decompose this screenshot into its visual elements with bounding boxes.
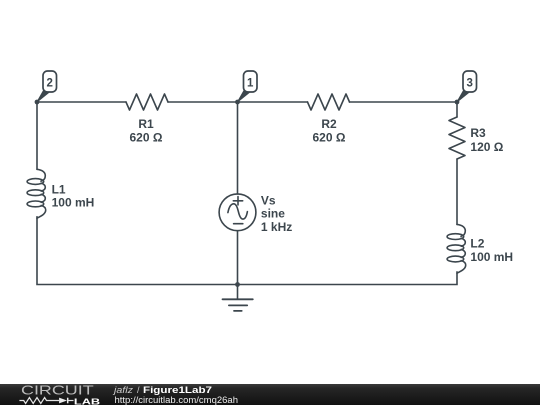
- wire left vertical upper: [36, 102, 38, 169]
- resistor R3: [449, 117, 504, 159]
- wire middle vertical lower: Vs to ground junction: [237, 231, 239, 299]
- svg-text:1: 1: [247, 78, 254, 90]
- wire top-middle: R1 to node1: [168, 101, 308, 103]
- svg-text:100 mH: 100 mH: [470, 250, 513, 264]
- svg-text:2: 2: [46, 78, 52, 90]
- svg-text:LAB: LAB: [74, 397, 100, 405]
- svg-text:620 Ω: 620 Ω: [313, 130, 346, 144]
- svg-text:Vs: Vs: [261, 193, 276, 207]
- svg-text:620 Ω: 620 Ω: [130, 130, 163, 144]
- svg-text:R2: R2: [321, 117, 337, 131]
- CircuitLab logo: [0, 384, 260, 405]
- wire top-right: R2 to node3: [350, 101, 458, 103]
- wire bottom: [37, 216, 457, 284]
- svg-text:sine: sine: [261, 207, 285, 221]
- footer bar: [0, 384, 540, 405]
- svg-text:100 mH: 100 mH: [52, 195, 95, 209]
- wire right vertical middle: R3 to L2: [456, 159, 458, 224]
- svg-text:L1: L1: [52, 182, 66, 196]
- svg-text:R1: R1: [138, 117, 154, 131]
- ground junction dot: [235, 282, 240, 287]
- node 3 flag: [457, 71, 477, 102]
- resistor R1: [126, 94, 168, 144]
- wire right vertical upper: node3 to R3: [456, 102, 458, 117]
- svg-text:L2: L2: [470, 236, 484, 250]
- voltage source Vs: [219, 193, 292, 234]
- inductor L2: [447, 224, 513, 273]
- wire top-left: node2 to R1: [37, 101, 126, 103]
- svg-text:120 Ω: 120 Ω: [470, 140, 503, 154]
- inductor L1: [27, 169, 94, 218]
- node 2 flag: [37, 71, 57, 102]
- svg-text:R3: R3: [470, 126, 486, 140]
- node 1 junction dot: [235, 100, 240, 105]
- node 2 junction dot: [35, 100, 40, 105]
- svg-text:http://circuitlab.com/cmq26ah: http://circuitlab.com/cmq26ah: [115, 395, 239, 405]
- svg-text:3: 3: [466, 78, 472, 90]
- node 3 junction dot: [455, 100, 460, 105]
- svg-text:/: /: [137, 385, 140, 395]
- wire middle vertical upper: node1 to Vs: [237, 102, 239, 194]
- resistor R2: [308, 94, 350, 144]
- svg-text:1 kHz: 1 kHz: [261, 220, 292, 234]
- svg-text:jaflz: jaflz: [113, 385, 134, 395]
- ground: [223, 299, 253, 311]
- svg-text:Figure1Lab7: Figure1Lab7: [143, 385, 212, 395]
- node 1 flag: [238, 71, 258, 102]
